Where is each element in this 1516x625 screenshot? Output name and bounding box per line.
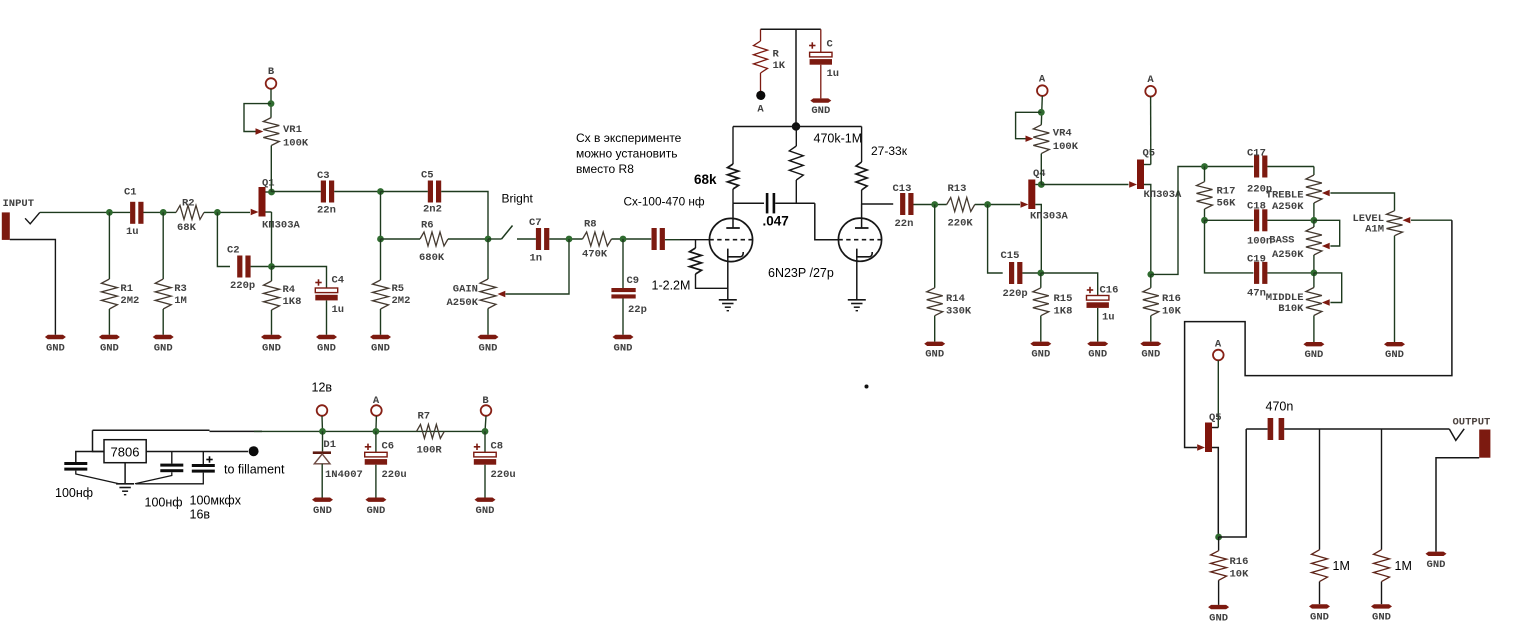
svg-text:R3: R3	[174, 283, 187, 295]
svg-text:220p: 220p	[230, 280, 255, 292]
svg-text:B: B	[268, 66, 275, 78]
svg-text:R17: R17	[1217, 186, 1236, 198]
wire VR4 wiper loop	[1016, 112, 1042, 138]
ground R1	[99, 335, 120, 355]
triode V1a 6N23P	[709, 203, 753, 261]
capacitor C19 47n	[1247, 254, 1267, 300]
svg-text:Q5: Q5	[1143, 148, 1156, 160]
node Q5out source	[1215, 534, 1222, 541]
wire C5 right	[441, 192, 488, 240]
ground C9	[613, 335, 634, 355]
node R8-C9	[620, 236, 627, 243]
svg-text:1M: 1M	[1333, 559, 1350, 573]
wire tube1 plate node	[733, 202, 764, 204]
output jack J2	[1449, 417, 1490, 458]
speck artifact	[865, 385, 869, 389]
wire VR1 wiper loop	[244, 104, 271, 132]
resistor R4 1K8	[264, 281, 302, 310]
wire GAIN bottom	[487, 309, 489, 335]
terminal A filament dot	[756, 91, 765, 116]
node Q5 source-R16	[1147, 271, 1154, 278]
svg-text:220u: 220u	[382, 469, 407, 481]
svg-text:16в: 16в	[190, 508, 211, 522]
svg-text:C13: C13	[893, 183, 912, 195]
svg-text:КП303А: КП303А	[1144, 189, 1183, 201]
svg-text:C8: C8	[491, 441, 504, 453]
svg-text:R16: R16	[1162, 293, 1181, 305]
node MIDDLE top	[1311, 270, 1318, 277]
wire B+ top rail	[761, 28, 821, 30]
wire C17-TREBLE	[1267, 166, 1314, 168]
wire source-470n	[1219, 429, 1247, 537]
wire GAIN wiper	[506, 239, 570, 294]
svg-text:GND: GND	[476, 505, 495, 517]
resistor R15 1K8	[1033, 288, 1073, 318]
node Q1 drain	[268, 189, 275, 196]
wire R15 bottom	[1040, 316, 1042, 342]
wire 7806 input drop	[93, 430, 105, 451]
resistor R2 68K	[176, 198, 204, 235]
svg-text:INPUT: INPUT	[3, 198, 35, 210]
wire Q5-tone rail	[1151, 167, 1254, 275]
ground R16	[1140, 342, 1161, 361]
diode D1 1N4007	[313, 431, 363, 481]
node 12v rail	[319, 428, 326, 435]
capacitor C17 220p	[1247, 148, 1272, 196]
wire R1 top	[108, 212, 110, 279]
svg-text:GND: GND	[46, 342, 65, 354]
wire R15 top	[1040, 273, 1042, 288]
svg-text:A: A	[1147, 74, 1154, 86]
svg-text:470K: 470K	[582, 249, 608, 261]
resistor R7 100R	[417, 411, 445, 457]
capacitor 470n output	[1246, 400, 1293, 441]
terminal A Q5 drain	[1145, 74, 1156, 96]
svg-text:1u: 1u	[332, 304, 345, 316]
wire R3 bottom	[162, 309, 164, 335]
svg-text:GND: GND	[100, 342, 119, 354]
ground LEVEL	[1384, 342, 1405, 361]
wire C bottom	[820, 65, 822, 99]
svg-text:1M: 1M	[174, 295, 187, 307]
node C3 out	[377, 188, 384, 195]
svg-text:1K8: 1K8	[1054, 306, 1073, 318]
svg-text:GND: GND	[1088, 349, 1107, 361]
node B+ junction	[792, 122, 800, 130]
svg-text:OUTPUT: OUTPUT	[1453, 417, 1491, 429]
ground R4	[261, 335, 282, 355]
svg-text:220K: 220K	[948, 218, 974, 230]
node Q1 source-R4	[268, 263, 275, 270]
svg-text:R16: R16	[1230, 556, 1249, 568]
svg-text:10K: 10K	[1162, 306, 1182, 318]
svg-text:1K8: 1K8	[283, 296, 302, 308]
svg-text:A: A	[757, 104, 764, 116]
wire A-Q5 drain	[1150, 97, 1152, 165]
svg-text:GND: GND	[925, 349, 944, 361]
svg-text:VR1: VR1	[283, 124, 302, 136]
wire VR4-Q4 drain	[1040, 154, 1042, 185]
wire C4 bottom	[326, 301, 328, 335]
svg-text:GND: GND	[366, 505, 385, 517]
label Cx-100-470	[624, 195, 705, 209]
ground earth tube2	[848, 300, 866, 311]
svg-text:68k: 68k	[694, 172, 717, 187]
node B rail	[482, 428, 489, 435]
wire 7806 gnd pin	[124, 463, 126, 484]
svg-text:Q4: Q4	[1033, 168, 1046, 180]
node VR1 top	[268, 100, 275, 107]
capacitor C8 220u	[474, 431, 516, 481]
wire R14 bottom	[934, 316, 936, 342]
wire TREBLE wiper-LEVEL	[1330, 193, 1394, 211]
svg-text:C19: C19	[1247, 254, 1266, 266]
wire VR1-Q1 drain	[270, 146, 272, 193]
svg-text:GND: GND	[317, 342, 336, 354]
svg-text:GND: GND	[1385, 349, 1404, 361]
svg-text:100нф: 100нф	[145, 496, 183, 510]
svg-text:GAIN: GAIN	[453, 284, 478, 296]
triode V1b 6N23P	[838, 204, 882, 261]
svg-text:C7: C7	[529, 217, 542, 229]
capacitor C6 220u	[365, 431, 407, 481]
wire plate rail	[733, 126, 862, 128]
wire Q4-Q5 gate	[1041, 184, 1128, 186]
wire D1 bottom	[321, 464, 323, 498]
wire C18-BASS	[1267, 219, 1314, 221]
wire A-rail	[375, 416, 378, 431]
capacitor 100nf input	[55, 462, 93, 500]
wire low rail drop	[1205, 220, 1254, 273]
wire PSU top rail green	[254, 430, 485, 432]
ground C6	[365, 498, 386, 518]
wire R8-Cx	[612, 238, 652, 240]
node VR4 top	[1038, 109, 1045, 116]
ground earth tube1	[719, 300, 737, 311]
node tone input	[1201, 163, 1208, 170]
ground C8	[475, 498, 496, 518]
svg-text:C16: C16	[1100, 285, 1119, 297]
svg-text:B: B	[482, 395, 489, 407]
wire cap1-earth	[76, 471, 119, 484]
svg-text:220u: 220u	[491, 469, 516, 481]
svg-text:1n: 1n	[530, 253, 543, 265]
svg-text:C15: C15	[1001, 250, 1020, 262]
svg-text:1N4007: 1N4007	[325, 469, 363, 481]
wire C7-R8	[549, 238, 582, 240]
resistor 1M second	[1374, 550, 1412, 582]
wire C4 top	[272, 267, 327, 289]
svg-text:330K: 330K	[946, 306, 972, 318]
switch Bright	[502, 192, 534, 240]
wire R6 right lead	[448, 238, 488, 240]
wire LEVEL bottom	[1394, 236, 1396, 342]
svg-text:100нф: 100нф	[55, 486, 93, 500]
wire tube2 grid feed	[815, 203, 839, 239]
capacitor C5 2n2	[421, 170, 442, 216]
wire PSU top rail black	[93, 430, 263, 431]
potentiometer BASS A250K	[1269, 220, 1329, 273]
svg-text:C9: C9	[627, 275, 640, 287]
wire 12v-rail	[321, 416, 324, 431]
wire B-rail	[485, 416, 486, 431]
svg-text:A: A	[373, 395, 380, 407]
svg-text:22p: 22p	[628, 304, 647, 316]
potentiometer VR1 100K	[256, 118, 309, 150]
ground R3	[153, 335, 174, 355]
wire switch-C7	[517, 238, 536, 240]
svg-text:C6: C6	[382, 441, 395, 453]
wire C1-R2	[143, 211, 176, 213]
potentiometer VR4 100K	[1026, 125, 1079, 154]
svg-text:R6: R6	[421, 220, 434, 232]
node Q4 drain	[1038, 181, 1045, 188]
svg-text:C5: C5	[421, 170, 434, 182]
svg-text:R1: R1	[120, 283, 133, 295]
ground MIDDLE	[1303, 342, 1324, 361]
ground C4	[316, 335, 337, 355]
ground 1M first	[1309, 604, 1330, 623]
terminal 12v	[312, 381, 333, 416]
resistor R17 56K	[1197, 167, 1237, 221]
svg-text:R4: R4	[283, 284, 296, 296]
svg-text:68K: 68K	[177, 222, 197, 234]
svg-text:Cx в эксперименте: Cx в эксперименте	[576, 131, 682, 145]
svg-text:BASS: BASS	[1269, 235, 1294, 247]
resistor R3 1M	[155, 279, 187, 309]
svg-text:2n2: 2n2	[423, 204, 442, 216]
wire 1M first bottom	[1319, 582, 1321, 605]
svg-text:GND: GND	[1310, 612, 1329, 624]
svg-text:6N23P /27p: 6N23P /27p	[768, 266, 834, 280]
resistor R6 680K	[419, 220, 448, 265]
capacitor 100mkf 16v	[190, 452, 242, 522]
svg-text:12в: 12в	[312, 381, 333, 395]
ground output jack	[1426, 552, 1447, 571]
svg-text:можно установить: можно установить	[576, 147, 677, 161]
wire C9 top	[622, 239, 624, 288]
resistor 1M first	[1312, 550, 1350, 582]
wire C6 bottom	[375, 465, 377, 498]
ground D1	[312, 498, 333, 518]
ground R14	[924, 342, 945, 361]
svg-text:Сх-100-470 нф: Сх-100-470 нф	[624, 195, 705, 209]
wire 1M first top	[1319, 429, 1321, 550]
svg-text:GND: GND	[614, 342, 633, 354]
transistor Q5 KP303A tone driver	[1129, 148, 1182, 275]
svg-text:GND: GND	[1304, 349, 1323, 361]
svg-text:R8: R8	[584, 219, 597, 231]
terminal to filament dot	[224, 446, 285, 476]
wire LEVEL wiper long	[1185, 220, 1452, 447]
wire node down R6 row	[380, 192, 382, 240]
node R2-C2	[214, 209, 221, 216]
svg-text:Q5: Q5	[1209, 412, 1222, 424]
wire C13-R13	[914, 204, 947, 206]
ground earth PSU	[116, 484, 134, 495]
svg-text:C3: C3	[317, 170, 330, 182]
svg-text:7806: 7806	[111, 445, 140, 460]
transistor Q1 KP303A	[251, 178, 301, 232]
svg-text:R7: R7	[418, 411, 431, 423]
wire R3 top	[162, 212, 164, 279]
wire C2-R4 node	[251, 266, 272, 268]
svg-text:вместо R8: вместо R8	[576, 162, 634, 176]
svg-text:22n: 22n	[895, 218, 914, 230]
ground GAIN	[478, 335, 499, 355]
node R13-C15	[984, 201, 991, 208]
wire R1 bottom	[108, 309, 110, 335]
wire R16 bottom	[1150, 316, 1152, 342]
wire A-VR4	[1041, 96, 1042, 125]
wire C15 left	[988, 205, 1003, 274]
label 6N23P	[768, 266, 834, 280]
regulator 7806	[104, 440, 146, 463]
svg-text:D1: D1	[323, 439, 336, 451]
wire 1M second bottom	[1381, 582, 1383, 605]
resistor 27-33k plate tube2	[856, 127, 908, 205]
svg-text:GND: GND	[371, 342, 390, 354]
wire cap3-earth	[136, 473, 203, 484]
svg-text:GND: GND	[154, 342, 173, 354]
ground R15	[1030, 342, 1051, 361]
wire C2 left	[217, 212, 230, 266]
svg-text:A: A	[1215, 339, 1222, 351]
wire cap2-earth	[135, 472, 172, 484]
capacitor C9 22p	[611, 275, 647, 316]
svg-text:1K: 1K	[773, 60, 786, 72]
svg-text:A: A	[1039, 74, 1046, 86]
capacitor C16 1u	[1087, 285, 1119, 324]
node R6 right	[485, 236, 492, 243]
potentiometer MIDDLE B10K	[1266, 273, 1330, 342]
wire GAIN top	[487, 239, 489, 279]
wire R2-Q1 gate	[204, 211, 250, 213]
capacitor C3 22n	[317, 170, 336, 217]
wire input jack ground	[10, 240, 56, 335]
capacitor C4 1u	[315, 275, 344, 317]
svg-text:A250K: A250K	[1272, 201, 1304, 213]
wire C5 left	[381, 191, 428, 193]
potentiometer GAIN A250K	[446, 279, 505, 309]
wire C9 bottom	[622, 299, 624, 335]
input jack J1	[2, 198, 40, 240]
wire input row	[40, 211, 130, 213]
svg-text:B10K: B10K	[1278, 303, 1304, 315]
svg-text:100K: 100K	[1053, 141, 1079, 153]
svg-text:100R: 100R	[417, 445, 443, 457]
capacitor C18 100n	[1247, 201, 1272, 248]
wire R5 top	[380, 239, 382, 280]
ground C16	[1087, 342, 1108, 361]
wire output row	[1284, 428, 1449, 430]
svg-text:22n: 22n	[317, 205, 336, 217]
wire C16 top	[1041, 273, 1098, 296]
svg-text:47n: 47n	[1247, 288, 1266, 300]
wire tube2 plate-C13	[862, 203, 894, 205]
svg-text:470n: 470n	[1266, 400, 1294, 414]
resistor R13 220K	[947, 183, 975, 230]
wire C3-node	[334, 191, 380, 193]
svg-text:R2: R2	[182, 198, 195, 210]
capacitor C 1u plate supply	[809, 29, 839, 80]
wire R4 bottom	[271, 310, 273, 335]
resistor R16 10K tone	[1143, 288, 1182, 318]
wire R14 top	[934, 205, 936, 288]
svg-text:R5: R5	[392, 283, 405, 295]
svg-text:2M2: 2M2	[392, 295, 411, 307]
svg-text:C4: C4	[332, 275, 345, 287]
svg-text:1u: 1u	[1102, 312, 1115, 324]
node Q4 source-R15	[1037, 270, 1044, 277]
svg-text:C17: C17	[1247, 148, 1266, 160]
node input-C1	[106, 209, 113, 216]
svg-text:1u: 1u	[827, 68, 840, 80]
resistor 470k-1M grid leak	[789, 127, 862, 204]
svg-text:GND: GND	[262, 342, 281, 354]
resistor R8 470K	[582, 219, 612, 261]
svg-text:R: R	[773, 49, 780, 61]
svg-text:GND: GND	[1427, 559, 1446, 571]
svg-text:Q1: Q1	[262, 178, 275, 190]
svg-text:GND: GND	[479, 342, 498, 354]
svg-text:1u: 1u	[126, 226, 139, 238]
svg-text:C2: C2	[227, 245, 240, 257]
svg-text:1-2.2M: 1-2.2M	[652, 279, 691, 293]
wire C15 right	[1022, 272, 1040, 274]
svg-text:C: C	[827, 39, 834, 51]
ground R16 output	[1208, 605, 1229, 625]
resistor R 1K	[754, 29, 786, 91]
wire C8 bottom	[484, 465, 486, 498]
capacitor C2 220p	[227, 245, 255, 293]
svg-text:1M: 1M	[1395, 559, 1412, 573]
svg-text:A1M: A1M	[1365, 224, 1384, 236]
transistor Q5 KP303A output	[1197, 412, 1221, 537]
capacitor C13 22n	[893, 183, 914, 230]
node R6 left	[377, 236, 384, 243]
wire Q1 source down	[271, 212, 273, 267]
svg-text:R13: R13	[948, 183, 967, 195]
svg-text:A250K: A250K	[1272, 249, 1304, 261]
note Cx experiment	[576, 131, 682, 176]
svg-text:VR4: VR4	[1053, 128, 1072, 140]
node BASS top	[1311, 217, 1318, 224]
wire 7806 output	[146, 451, 248, 453]
wire to bright switch	[488, 238, 502, 240]
svg-text:GND: GND	[1031, 349, 1050, 361]
svg-text:27-33к: 27-33к	[871, 144, 908, 158]
svg-text:10K: 10K	[1230, 569, 1250, 581]
wire R5 bottom	[380, 309, 382, 335]
svg-text:Bright: Bright	[502, 192, 534, 206]
svg-text:220p: 220p	[1003, 288, 1028, 300]
potentiometer TREBLE A250K	[1266, 167, 1330, 221]
wire R13-Q4 gate	[975, 204, 1020, 206]
wire tube1 cathode	[727, 257, 729, 300]
capacitor .047 coupling	[763, 193, 815, 229]
transistor Q4 KP303A	[1021, 168, 1069, 273]
svg-text:A250K: A250K	[446, 297, 478, 309]
ground C	[810, 98, 831, 117]
svg-text:100K: 100K	[283, 138, 309, 150]
svg-text:to fillament: to fillament	[224, 463, 285, 477]
resistor 68k plate tube1	[694, 127, 739, 204]
node C1-R3	[160, 209, 167, 216]
svg-text:GND: GND	[1141, 349, 1160, 361]
resistor R5 2M2	[373, 280, 411, 309]
wire C19-MIDDLE	[1267, 272, 1314, 274]
